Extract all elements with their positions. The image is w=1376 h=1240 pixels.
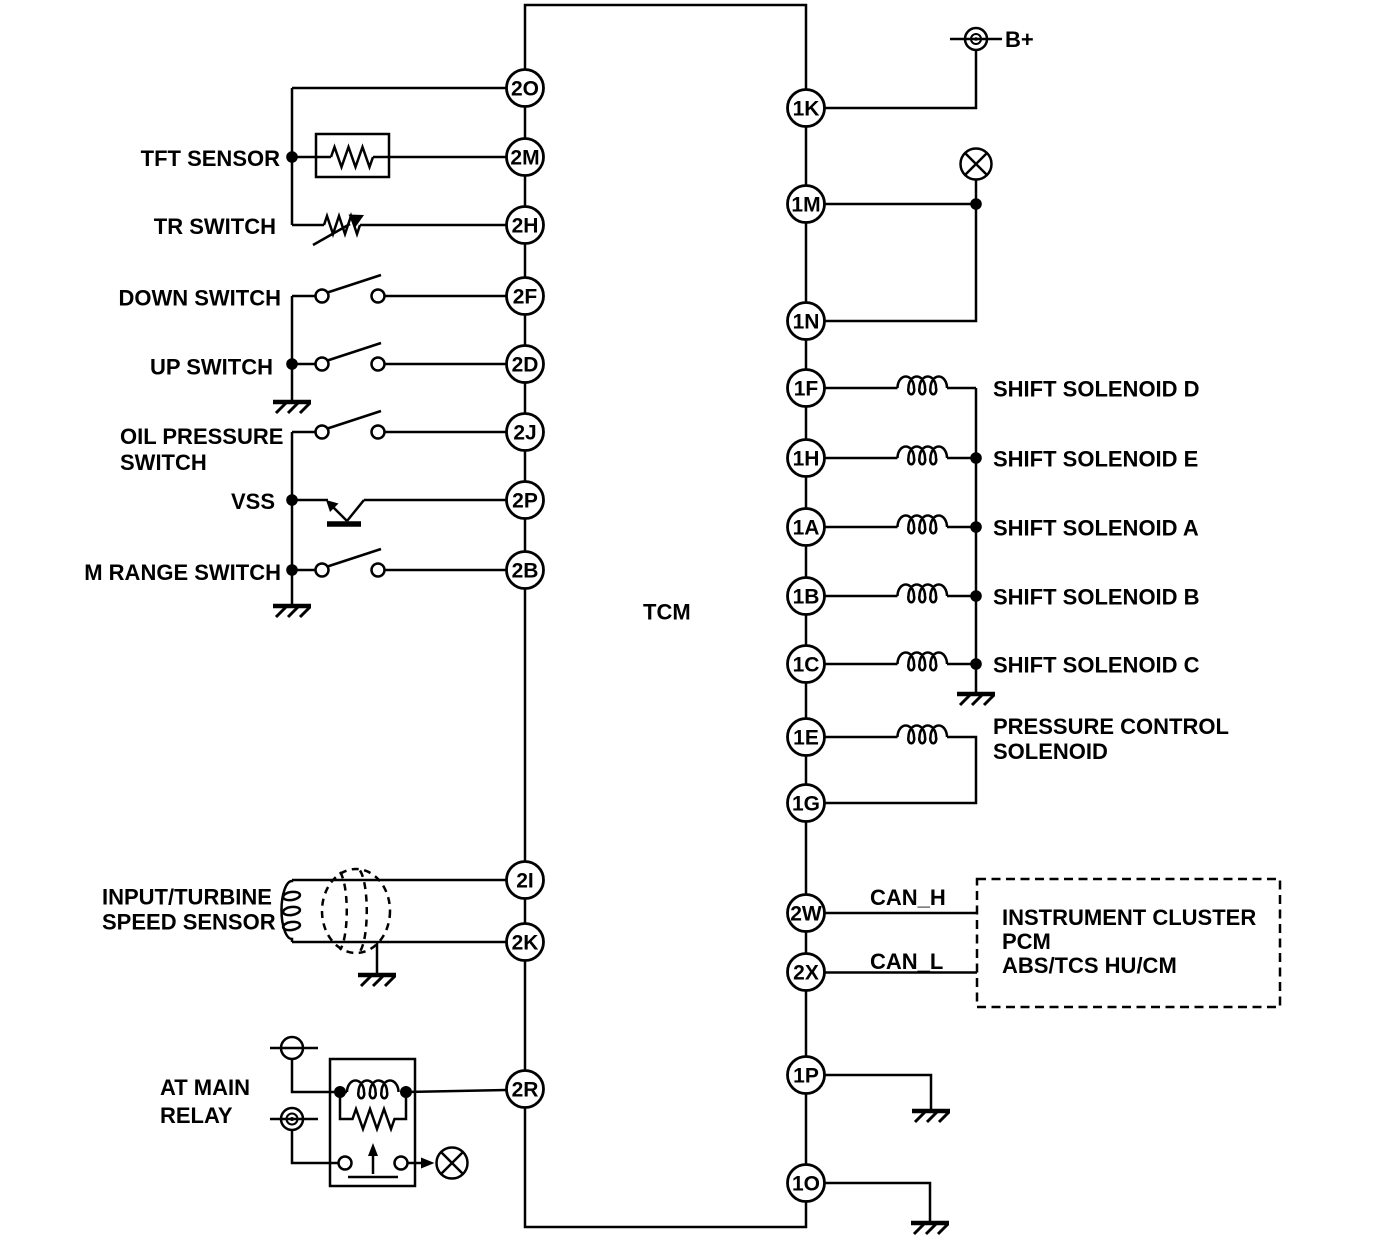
svg-text:OIL PRESSURE: OIL PRESSURE xyxy=(120,424,283,449)
wire 1H solenoid E xyxy=(825,457,898,460)
svg-text:PCM: PCM xyxy=(1002,929,1051,954)
wire 2W CAN_H xyxy=(825,912,978,915)
svg-text:SHIFT SOLENOID A: SHIFT SOLENOID A xyxy=(993,516,1199,541)
relay AT MAIN RELAY box xyxy=(330,1059,415,1186)
wire left bus 2 xyxy=(291,296,294,400)
svg-text:SHIFT SOLENOID B: SHIFT SOLENOID B xyxy=(993,585,1200,610)
ground speed sensor shield xyxy=(358,975,396,986)
wire INPUT/TURBINE to 2I xyxy=(292,879,507,882)
pin 1P xyxy=(788,1057,825,1094)
svg-text:1A: 1A xyxy=(793,517,820,540)
wire solenoid A to bus xyxy=(947,526,976,529)
pin 1G xyxy=(788,785,825,822)
wire 2X CAN_L xyxy=(825,971,978,974)
svg-text:CAN_H: CAN_H xyxy=(870,885,946,910)
pin 1N xyxy=(788,303,825,340)
lamp relay output xyxy=(437,1148,468,1179)
wire terminal to relay switch xyxy=(292,1130,339,1163)
svg-text:2P: 2P xyxy=(512,490,538,513)
lamp indicator xyxy=(961,149,992,180)
svg-text:2M: 2M xyxy=(510,147,539,170)
svg-text:PRESSURE CONTROL: PRESSURE CONTROL xyxy=(993,714,1229,739)
svg-text:2F: 2F xyxy=(513,286,538,309)
wire 1A solenoid A xyxy=(825,526,898,529)
pin 2I xyxy=(507,862,544,899)
wire INPUT/TURBINE to 2K xyxy=(292,941,507,944)
node solenoid C junction xyxy=(970,658,982,670)
wire 1M xyxy=(825,203,977,206)
wire solenoid B to bus xyxy=(947,595,976,598)
pin 2X xyxy=(788,954,825,991)
pin 2H xyxy=(507,207,544,244)
svg-text:TCM: TCM xyxy=(643,600,691,625)
wire 1E pressure control xyxy=(825,736,898,739)
svg-text:2H: 2H xyxy=(512,215,539,238)
resistor TFT SENSOR xyxy=(331,147,373,167)
svg-text:TR SWITCH: TR SWITCH xyxy=(154,214,276,239)
ground below M RANGE SWITCH xyxy=(273,606,311,617)
node VSS junction xyxy=(286,494,298,506)
svg-text:1M: 1M xyxy=(791,194,820,217)
ground solenoid bus xyxy=(957,694,995,705)
svg-text:SHIFT SOLENOID E: SHIFT SOLENOID E xyxy=(993,447,1198,472)
svg-text:1B: 1B xyxy=(793,586,820,609)
svg-text:2B: 2B xyxy=(512,560,539,583)
svg-text:SOLENOID: SOLENOID xyxy=(993,739,1108,764)
svg-text:1O: 1O xyxy=(792,1173,820,1196)
svg-text:UP SWITCH: UP SWITCH xyxy=(150,355,273,380)
inductor speed sensor coil xyxy=(282,880,293,942)
resistor TR SWITCH variable xyxy=(324,216,360,234)
svg-text:DOWN SWITCH: DOWN SWITCH xyxy=(118,286,281,311)
node UP junction xyxy=(286,358,298,370)
switch M RANGE SWITCH xyxy=(316,549,385,577)
switch relay contacts xyxy=(339,1157,352,1170)
svg-text:B+: B+ xyxy=(1005,27,1034,52)
wire 2O to left bus xyxy=(292,87,507,90)
wire resistor to 2M xyxy=(373,156,507,159)
wire relay to lamp xyxy=(408,1162,423,1165)
pin 2J xyxy=(507,414,544,451)
wire 1P to ground xyxy=(825,1075,932,1110)
shield dashed xyxy=(322,869,390,953)
resistor relay parallel xyxy=(340,1096,406,1129)
svg-text:ABS/TCS HU/CM: ABS/TCS HU/CM xyxy=(1002,953,1177,978)
svg-text:2I: 2I xyxy=(516,870,534,893)
svg-text:INPUT/TURBINE: INPUT/TURBINE xyxy=(102,885,272,910)
pin 1M xyxy=(788,186,825,223)
wire VSS xyxy=(292,499,328,502)
svg-text:SWITCH: SWITCH xyxy=(120,450,207,475)
svg-text:SPEED SENSOR: SPEED SENSOR xyxy=(102,910,276,935)
pin 2K xyxy=(507,924,544,961)
wire OIL PRESSURE SWITCH to 2J xyxy=(385,431,507,434)
wire node to 1N xyxy=(825,204,977,321)
pin 2D xyxy=(507,346,544,383)
svg-text:SHIFT SOLENOID C: SHIFT SOLENOID C xyxy=(993,653,1200,678)
svg-text:1P: 1P xyxy=(793,1065,819,1088)
pin 2M xyxy=(507,139,544,176)
svg-text:2O: 2O xyxy=(511,78,539,101)
inductor pressure control solenoid xyxy=(898,726,948,744)
inductor relay coil xyxy=(347,1081,399,1099)
wire TFT to 2M xyxy=(292,156,331,159)
wire shield ground stub xyxy=(376,942,379,974)
svg-text:INSTRUMENT CLUSTER: INSTRUMENT CLUSTER xyxy=(1002,905,1256,930)
pin 2O xyxy=(507,70,544,107)
svg-text:1H: 1H xyxy=(793,448,820,471)
pin 1O xyxy=(788,1165,825,1202)
node relay coil right xyxy=(400,1086,412,1098)
svg-text:SHIFT SOLENOID D: SHIFT SOLENOID D xyxy=(993,377,1200,402)
node solenoid B junction xyxy=(970,590,982,602)
module box dashed xyxy=(977,879,1280,1007)
pin 2B xyxy=(507,552,544,589)
wire 1O to ground xyxy=(825,1183,931,1222)
pin 1C xyxy=(788,646,825,683)
ground below UP SWITCH xyxy=(273,402,311,413)
inductor solenoid D xyxy=(898,377,948,395)
wire solenoid E to bus xyxy=(947,457,976,460)
svg-text:1G: 1G xyxy=(792,793,820,816)
node 1M junction xyxy=(970,198,982,210)
pin 2R xyxy=(507,1071,544,1108)
wire terminal to relay coil xyxy=(292,1059,347,1092)
switch OIL PRESSURE SWITCH xyxy=(316,411,385,439)
ground 1O xyxy=(911,1223,949,1234)
pin 1F xyxy=(788,370,825,407)
pin 1A xyxy=(788,509,825,546)
svg-text:2D: 2D xyxy=(512,354,539,377)
wire M RANGE SWITCH to 2B xyxy=(385,569,507,572)
svg-text:2W: 2W xyxy=(790,903,822,926)
pin 1K xyxy=(788,90,825,127)
pin 2W xyxy=(788,895,825,932)
svg-text:CAN_L: CAN_L xyxy=(870,949,943,974)
svg-text:2R: 2R xyxy=(512,1079,539,1102)
pin 1H xyxy=(788,440,825,477)
node M RANGE junction xyxy=(286,564,298,576)
wire M RANGE SWITCH xyxy=(292,569,316,572)
wire solenoid C to bus xyxy=(947,663,976,666)
terminal AT MAIN RELAY top xyxy=(281,1037,303,1059)
pin 2F xyxy=(507,278,544,315)
svg-text:2J: 2J xyxy=(513,422,536,445)
svg-text:M RANGE SWITCH: M RANGE SWITCH xyxy=(84,560,281,585)
svg-text:1N: 1N xyxy=(793,311,820,334)
wire left bus 3 xyxy=(291,432,294,604)
TCM box xyxy=(525,5,806,1227)
svg-text:1C: 1C xyxy=(793,654,820,677)
svg-text:1F: 1F xyxy=(794,378,819,401)
svg-text:2X: 2X xyxy=(793,962,819,985)
terminal B+ xyxy=(965,28,987,50)
wire TR SWITCH to 2H xyxy=(292,224,324,227)
wire 1C solenoid C xyxy=(825,663,898,666)
terminal AT MAIN RELAY lower xyxy=(281,1108,303,1130)
node TFT junction xyxy=(286,151,298,163)
wire relay coil to 2R xyxy=(406,1090,507,1092)
svg-text:RELAY: RELAY xyxy=(160,1103,233,1128)
wire DOWN SWITCH xyxy=(292,295,316,298)
wire VSS to 2P xyxy=(364,499,507,502)
wire 1F solenoid D xyxy=(825,387,898,390)
wire OIL PRESSURE SWITCH xyxy=(292,431,316,434)
wire solenoid D to bus xyxy=(947,387,976,390)
wire UP SWITCH xyxy=(292,363,316,366)
ground 1P xyxy=(912,1111,950,1122)
node solenoid A junction xyxy=(970,521,982,533)
wire pressure control return to 1G xyxy=(825,737,977,803)
node solenoid E junction xyxy=(970,452,982,464)
switch DOWN SWITCH xyxy=(316,275,385,303)
wire UP SWITCH to 2D xyxy=(385,363,507,366)
svg-text:1K: 1K xyxy=(793,98,820,121)
wire DOWN SWITCH to 2F xyxy=(385,295,507,298)
svg-text:TFT SENSOR: TFT SENSOR xyxy=(141,146,280,171)
node relay coil left xyxy=(334,1086,346,1098)
wire 1K to B+ xyxy=(825,50,977,108)
inductor solenoid C xyxy=(898,653,948,671)
svg-text:1E: 1E xyxy=(793,727,819,750)
inductor solenoid B xyxy=(898,585,948,603)
wire left bus top xyxy=(291,88,294,225)
inductor solenoid E xyxy=(898,447,948,465)
pin 1B xyxy=(788,578,825,615)
wire 1B solenoid B xyxy=(825,595,898,598)
svg-text:VSS: VSS xyxy=(231,489,275,514)
switch UP SWITCH xyxy=(316,343,385,371)
wire solenoid ground bus xyxy=(975,388,978,692)
svg-text:2K: 2K xyxy=(512,932,539,955)
svg-text:AT MAIN: AT MAIN xyxy=(160,1075,250,1100)
wire lamp to 1M node xyxy=(975,180,978,205)
inductor solenoid A xyxy=(898,516,948,534)
pin 2P xyxy=(507,482,544,519)
pin 1E xyxy=(788,719,825,756)
sensor VSS pickup xyxy=(333,507,347,521)
